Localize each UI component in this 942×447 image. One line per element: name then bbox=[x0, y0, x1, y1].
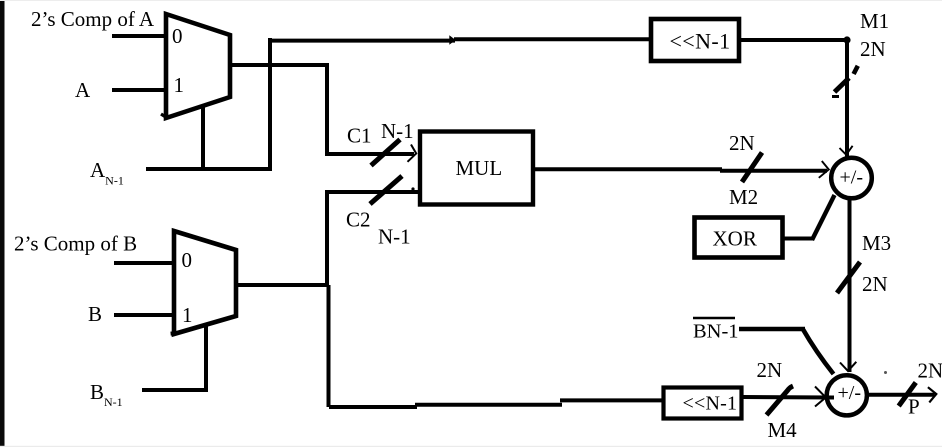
svg-text:BN-1: BN-1 bbox=[693, 321, 739, 343]
top edge hairline bbox=[0, 0, 942, 1]
svg-text:0: 0 bbox=[172, 24, 183, 48]
bus slash M1 (small dash) bbox=[832, 95, 839, 98]
arrowhead into adder U4 left bbox=[815, 387, 826, 407]
wire: M3 vertical adder U3 to adder U4 bbox=[848, 199, 852, 372]
bus slash M1 (main stroke) bbox=[835, 78, 850, 92]
wire: mux U1 output bbox=[230, 63, 329, 67]
svg-text:0: 0 bbox=[182, 248, 193, 272]
wire: C2 into MUL bbox=[325, 190, 418, 194]
svg-text:C1: C1 bbox=[347, 124, 372, 148]
arrowhead into adder U3 left bbox=[819, 161, 829, 178]
wire: mux U2 output bbox=[236, 283, 329, 287]
svg-text:<<N-1: <<N-1 bbox=[670, 29, 731, 54]
xor block XOR bbox=[695, 218, 783, 258]
multiplier block MUL bbox=[420, 132, 533, 205]
svg-text:2N: 2N bbox=[757, 358, 783, 382]
svg-text:2N: 2N bbox=[729, 131, 755, 155]
svg-text:2’s Comp of B: 2’s Comp of B bbox=[14, 232, 137, 256]
wire: vertical bus C2 to bottom shifter bbox=[325, 192, 329, 285]
wire: 2's Comp of A to mux U1 input 0 bbox=[112, 34, 168, 38]
bottom edge hairline bbox=[0, 446, 942, 447]
svg-text:B: B bbox=[88, 302, 102, 326]
wire: B to mux U2 input 1 bbox=[114, 313, 176, 317]
bus slash P bbox=[899, 383, 916, 407]
mux U1 (A-select mux) bbox=[166, 14, 230, 118]
adder U4 (+/-) bbox=[827, 375, 867, 415]
mux U2 (B-select mux) bbox=[174, 231, 236, 334]
wire: A to mux U1 input 1 bbox=[112, 88, 168, 92]
shifter block <<N-1 (bottom) bbox=[664, 388, 742, 419]
svg-text:M4: M4 bbox=[768, 418, 798, 442]
wire: vertical riser from A N-1 to top bus bbox=[268, 38, 272, 169]
wire: B N-1 horizontal bbox=[142, 388, 208, 392]
adder U3 (+/-) bbox=[831, 158, 872, 199]
left edge black bar bbox=[0, 0, 5, 447]
svg-text:A: A bbox=[75, 78, 91, 102]
wire: C1 into MUL bbox=[325, 152, 414, 156]
bus slash M4 bbox=[767, 386, 794, 415]
svg-text:M1: M1 bbox=[860, 9, 889, 33]
wire: mux U2 select stub bbox=[204, 324, 208, 392]
wire: 2's Comp of B to mux U2 input 0 bbox=[114, 261, 176, 265]
svg-text:2N: 2N bbox=[862, 272, 888, 296]
svg-text:+/-: +/- bbox=[838, 382, 862, 404]
svg-text:N-1: N-1 bbox=[381, 119, 414, 143]
svg-text:M2: M2 bbox=[729, 185, 758, 209]
wire: BN-1 diagonal into adder U4 bbox=[803, 329, 834, 375]
wire: A N-1 horizontal bbox=[146, 167, 272, 171]
svg-text:2N: 2N bbox=[860, 37, 886, 61]
wire: mux U1 select stub bbox=[201, 105, 205, 171]
svg-text:XOR: XOR bbox=[713, 227, 757, 251]
wire: output P bbox=[867, 393, 935, 397]
svg-text:N-1: N-1 bbox=[378, 225, 411, 249]
wire: XOR output diagonal to adder U3 bbox=[812, 195, 835, 240]
shifter block <<N-1 (top) bbox=[651, 19, 739, 61]
bus slash C2 bbox=[370, 176, 402, 204]
svg-text:1: 1 bbox=[182, 303, 193, 327]
bus slash M3 bbox=[837, 262, 860, 293]
arrowhead on top bus bbox=[449, 35, 455, 45]
svg-text:2’s Comp of A: 2’s Comp of A bbox=[31, 7, 155, 31]
arrowhead output P bbox=[928, 387, 936, 402]
svg-text:<<N-1: <<N-1 bbox=[683, 393, 738, 415]
wire: XOR output horizontal bbox=[784, 237, 813, 241]
wire: MUL output M2 bbox=[535, 167, 722, 171]
wire: vertical drop to C1 bbox=[325, 65, 329, 156]
wire: top bus to shifter left bbox=[268, 39, 455, 43]
arrowhead into MUL pin C1 bbox=[408, 145, 417, 162]
bus slash M2 bbox=[742, 153, 762, 183]
wire: bottom shifter to adder U4 bbox=[743, 395, 834, 400]
stray dot near adder U4 bbox=[884, 371, 887, 374]
svg-text:2N: 2N bbox=[918, 359, 942, 383]
wire: M1 vertical into adder U3 bbox=[845, 40, 849, 157]
svg-text:1: 1 bbox=[174, 73, 185, 97]
svg-text:+/-: +/- bbox=[840, 167, 864, 189]
svg-text:C2: C2 bbox=[346, 208, 371, 232]
svg-text:P: P bbox=[908, 395, 920, 419]
svg-text:M3: M3 bbox=[862, 231, 891, 255]
wire: bottom bus to lower shifter bbox=[329, 405, 417, 409]
svg-text:MUL: MUL bbox=[456, 156, 503, 180]
bus slash C1 bbox=[371, 140, 400, 166]
pin entry dot C2 bbox=[411, 187, 414, 190]
wire: top shifter output to M1 corner bbox=[740, 38, 849, 42]
arrowhead into adder U4 top bbox=[840, 362, 856, 371]
junction dot M1 corner bbox=[843, 36, 850, 43]
arrowhead into adder U3 top bbox=[840, 146, 853, 155]
bus slash M1 (tick mark upper) bbox=[854, 66, 858, 74]
wire: BN-1 horizontal bbox=[739, 327, 805, 331]
overline for BN-1 bbox=[693, 317, 735, 319]
